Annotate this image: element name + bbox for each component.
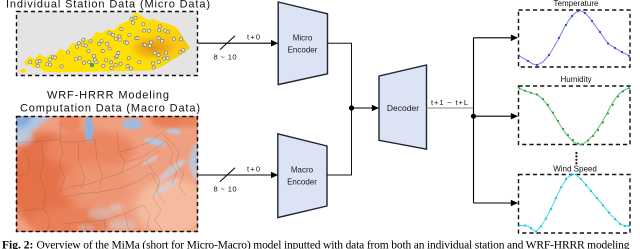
wind speed curve — [518, 173, 630, 232]
kentucky map — [24, 13, 207, 77]
svg-text:WRF-HRRR Modeling: WRF-HRRR Modeling — [47, 90, 169, 102]
wind speed box — [519, 175, 631, 234]
wire output bus vertical — [473, 38, 475, 203]
macro dashed border — [17, 117, 198, 232]
macro map light southeast — [136, 179, 208, 235]
kentucky exclave — [20, 69, 26, 73]
svg-text:Humidity: Humidity — [560, 75, 591, 84]
lake erie — [144, 136, 167, 148]
wire micro input — [198, 42, 273, 44]
ellipsis dots — [575, 152, 577, 164]
appalachian / chesapeake streaks — [156, 157, 187, 184]
temperature curve — [518, 10, 630, 66]
micro encoder — [278, 2, 327, 85]
macro encoder — [278, 134, 327, 218]
svg-text:Macro: Macro — [291, 166, 314, 175]
svg-text:8 ~ 10: 8 ~ 10 — [214, 52, 237, 61]
macro map blue northwest — [16, 116, 48, 145]
atlantic right edge — [189, 142, 198, 182]
svg-text:Temperature: Temperature — [554, 0, 599, 8]
wire micro encoder output — [328, 43, 352, 108]
temperature box — [519, 10, 631, 67]
wire decoder input — [352, 107, 374, 109]
humidity box — [519, 86, 631, 145]
station dots — [29, 16, 185, 70]
svg-text:Individual Station Data (Micro: Individual Station Data (Micro Data) — [6, 0, 210, 11]
svg-text:Decoder: Decoder — [387, 103, 419, 113]
wire macro input — [198, 174, 273, 176]
svg-text:Fig. 2:: Fig. 2: — [2, 240, 33, 249]
svg-text:Micro: Micro — [293, 34, 313, 43]
junction dot outputs — [471, 114, 476, 119]
svg-text:Computation Data (Macro Data): Computation Data (Macro Data) — [20, 103, 200, 115]
macro map dark orange midwest — [9, 132, 81, 228]
slash micro bus — [220, 36, 235, 50]
svg-text:Encoder: Encoder — [287, 178, 317, 187]
arrow to temperature — [474, 37, 513, 39]
svg-text:Wind Speed: Wind Speed — [553, 165, 597, 174]
svg-text:t+0: t+0 — [247, 33, 260, 42]
svg-text:Encoder: Encoder — [288, 46, 318, 55]
junction dot encoders — [349, 105, 354, 110]
arrow to wind speed — [474, 202, 513, 204]
svg-text:8 ~ 10: 8 ~ 10 — [214, 185, 237, 194]
wire decoder output — [427, 107, 474, 109]
humidity curve — [518, 87, 630, 145]
lake huron — [122, 119, 142, 130]
teal station dot — [90, 63, 94, 67]
arrow to humidity — [474, 115, 513, 117]
decoder — [379, 65, 427, 149]
wire macro encoder output — [327, 108, 352, 175]
svg-text:t+0: t+0 — [247, 165, 260, 174]
macro map dashed box — [9, 110, 208, 238]
svg-text:t+1 ~ t+L: t+1 ~ t+L — [431, 98, 468, 107]
lake michigan — [85, 116, 94, 142]
lake ontario — [166, 128, 182, 135]
station map dashed box — [17, 12, 198, 76]
svg-text:Overview of the MiMa (short fo: Overview of the MiMa (short for Micro-Ma… — [37, 240, 630, 249]
slash macro bus — [220, 168, 235, 182]
state borders — [16, 121, 186, 232]
